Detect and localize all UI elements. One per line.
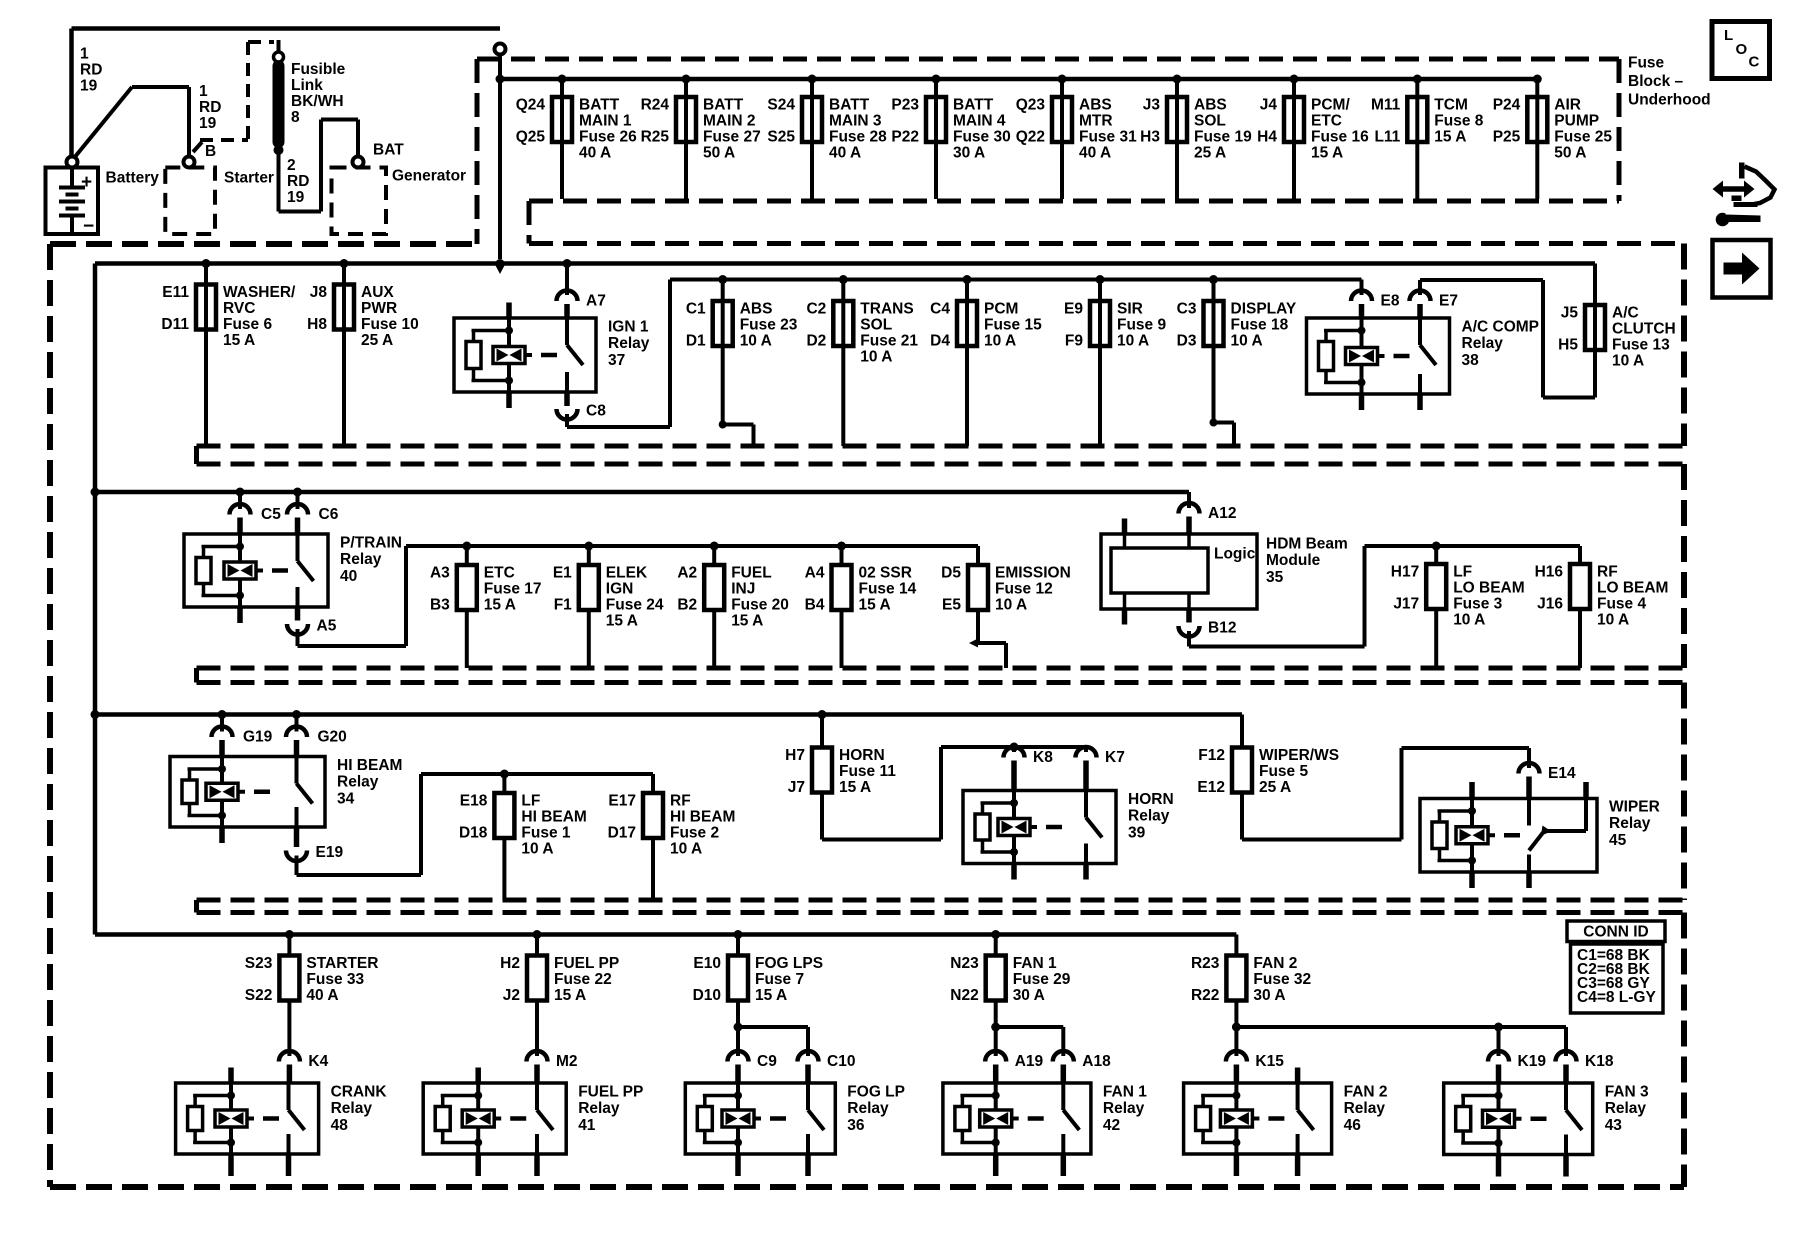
svg-text:H7: H7 xyxy=(785,747,805,764)
svg-text:36: 36 xyxy=(847,1117,865,1134)
svg-text:Fuse 5: Fuse 5 xyxy=(1259,763,1308,780)
svg-text:B4: B4 xyxy=(805,596,825,613)
svg-text:Fuse 17: Fuse 17 xyxy=(484,580,542,597)
svg-text:D11: D11 xyxy=(161,316,189,333)
svg-text:Fuse 1: Fuse 1 xyxy=(521,824,570,841)
svg-text:C5: C5 xyxy=(261,506,281,523)
svg-text:C1: C1 xyxy=(686,300,706,317)
svg-text:40: 40 xyxy=(340,568,357,585)
svg-text:E14: E14 xyxy=(1548,765,1576,782)
svg-text:Fuse 33: Fuse 33 xyxy=(306,971,364,988)
svg-text:30 A: 30 A xyxy=(953,144,985,161)
svg-text:15 A: 15 A xyxy=(1311,144,1343,161)
svg-text:A19: A19 xyxy=(1015,1053,1044,1070)
svg-text:A/C COMP: A/C COMP xyxy=(1462,318,1540,335)
svg-text:50 A: 50 A xyxy=(1554,144,1586,161)
svg-text:Fuse 26: Fuse 26 xyxy=(579,128,637,145)
svg-text:P22: P22 xyxy=(891,128,919,145)
svg-text:Fuse 7: Fuse 7 xyxy=(755,971,804,988)
svg-text:FAN 3: FAN 3 xyxy=(1605,1083,1649,1100)
svg-text:10 A: 10 A xyxy=(740,332,772,349)
svg-text:K7: K7 xyxy=(1105,749,1125,766)
svg-text:P24: P24 xyxy=(1493,96,1521,113)
svg-text:S22: S22 xyxy=(245,987,273,1004)
svg-text:39: 39 xyxy=(1128,824,1146,841)
svg-text:C4=8 L-GY: C4=8 L-GY xyxy=(1577,989,1656,1006)
svg-text:O: O xyxy=(1736,41,1748,58)
svg-text:15 A: 15 A xyxy=(606,612,638,629)
svg-text:ELEK: ELEK xyxy=(606,564,648,581)
svg-text:E9: E9 xyxy=(1064,300,1083,317)
svg-text:K18: K18 xyxy=(1585,1053,1614,1070)
svg-text:37: 37 xyxy=(608,352,625,369)
svg-text:IGN: IGN xyxy=(606,580,634,597)
svg-text:D4: D4 xyxy=(930,332,950,349)
svg-text:ABS: ABS xyxy=(1194,96,1227,113)
svg-text:BATT: BATT xyxy=(953,96,994,113)
svg-text:HI BEAM: HI BEAM xyxy=(337,757,402,774)
svg-text:E8: E8 xyxy=(1381,292,1400,309)
svg-text:40 A: 40 A xyxy=(579,144,611,161)
svg-text:Relay: Relay xyxy=(608,335,650,352)
svg-text:42: 42 xyxy=(1103,1117,1120,1134)
svg-text:40 A: 40 A xyxy=(829,144,861,161)
svg-text:HORN: HORN xyxy=(1128,791,1174,808)
svg-text:N23: N23 xyxy=(950,955,979,972)
svg-text:L11: L11 xyxy=(1374,128,1400,145)
svg-text:H3: H3 xyxy=(1140,128,1160,145)
svg-text:LF: LF xyxy=(1453,563,1472,580)
svg-text:M11: M11 xyxy=(1371,96,1401,113)
svg-text:ETC: ETC xyxy=(484,564,515,581)
svg-text:Relay: Relay xyxy=(1128,808,1170,825)
svg-text:D3: D3 xyxy=(1177,332,1197,349)
svg-text:PCM: PCM xyxy=(984,300,1018,317)
svg-text:25 A: 25 A xyxy=(1259,779,1291,796)
svg-text:Fuse 13: Fuse 13 xyxy=(1612,336,1670,353)
svg-text:10 A: 10 A xyxy=(1597,611,1629,628)
svg-text:Fuse 20: Fuse 20 xyxy=(731,596,789,613)
svg-text:WIPER: WIPER xyxy=(1609,798,1660,815)
svg-text:D17: D17 xyxy=(608,824,636,841)
svg-text:MTR: MTR xyxy=(1079,112,1113,129)
svg-text:H8: H8 xyxy=(307,316,327,333)
svg-text:50 A: 50 A xyxy=(703,144,735,161)
svg-text:FOG LP: FOG LP xyxy=(847,1083,905,1100)
svg-text:C4: C4 xyxy=(930,300,950,317)
svg-text:−: − xyxy=(83,216,94,237)
svg-text:J8: J8 xyxy=(310,284,328,301)
svg-text:Fuse 27: Fuse 27 xyxy=(703,128,761,145)
svg-text:HDM Beam: HDM Beam xyxy=(1266,535,1348,552)
svg-text:1: 1 xyxy=(80,45,89,62)
svg-text:BK/WH: BK/WH xyxy=(291,93,344,110)
svg-text:D5: D5 xyxy=(941,564,961,581)
svg-text:J17: J17 xyxy=(1393,595,1419,612)
svg-text:Q25: Q25 xyxy=(516,128,546,145)
svg-text:Relay: Relay xyxy=(1609,815,1651,832)
svg-text:15 A: 15 A xyxy=(554,987,586,1004)
svg-text:ETC: ETC xyxy=(1311,112,1342,129)
svg-text:WASHER/: WASHER/ xyxy=(223,284,296,301)
svg-text:BATT: BATT xyxy=(579,96,620,113)
svg-text:CLUTCH: CLUTCH xyxy=(1612,320,1676,337)
svg-text:LO BEAM: LO BEAM xyxy=(1453,579,1524,596)
svg-text:MAIN 1: MAIN 1 xyxy=(579,112,632,129)
svg-text:P/TRAIN: P/TRAIN xyxy=(340,534,402,551)
svg-text:RVC: RVC xyxy=(223,300,255,317)
svg-text:Relay: Relay xyxy=(1103,1100,1145,1117)
svg-text:10 A: 10 A xyxy=(860,348,892,365)
svg-text:25 A: 25 A xyxy=(1194,144,1226,161)
svg-text:E18: E18 xyxy=(460,792,488,809)
svg-text:Fuse 29: Fuse 29 xyxy=(1013,971,1071,988)
svg-text:F1: F1 xyxy=(554,596,572,613)
svg-text:FUEL PP: FUEL PP xyxy=(578,1083,643,1100)
svg-text:M2: M2 xyxy=(556,1053,578,1070)
svg-text:A12: A12 xyxy=(1208,505,1236,522)
svg-text:Fuse 6: Fuse 6 xyxy=(223,316,272,333)
svg-text:Link: Link xyxy=(291,77,323,94)
svg-text:H17: H17 xyxy=(1391,563,1419,580)
svg-text:J5: J5 xyxy=(1561,304,1579,321)
svg-text:Logic: Logic xyxy=(1214,545,1256,562)
svg-text:34: 34 xyxy=(337,790,355,807)
svg-text:J16: J16 xyxy=(1537,595,1563,612)
svg-text:E11: E11 xyxy=(162,284,189,301)
svg-text:BAT: BAT xyxy=(373,141,404,158)
svg-text:CONN ID: CONN ID xyxy=(1583,923,1648,940)
svg-text:RD: RD xyxy=(199,99,221,116)
svg-text:E17: E17 xyxy=(608,792,636,809)
svg-text:C9: C9 xyxy=(757,1053,777,1070)
svg-text:19: 19 xyxy=(199,115,217,132)
svg-text:35: 35 xyxy=(1266,569,1284,586)
svg-text:40 A: 40 A xyxy=(1079,144,1111,161)
svg-text:A3: A3 xyxy=(430,564,450,581)
svg-text:Fuse 30: Fuse 30 xyxy=(953,128,1011,145)
svg-text:C10: C10 xyxy=(827,1053,855,1070)
svg-text:BATT: BATT xyxy=(829,96,870,113)
svg-text:Fuse 8: Fuse 8 xyxy=(1434,112,1483,129)
svg-text:HI BEAM: HI BEAM xyxy=(521,808,586,825)
svg-text:TRANS: TRANS xyxy=(860,300,913,317)
svg-text:BATT: BATT xyxy=(703,96,744,113)
svg-text:A5: A5 xyxy=(317,617,337,634)
svg-text:INJ: INJ xyxy=(731,580,755,597)
svg-text:DISPLAY: DISPLAY xyxy=(1231,300,1297,317)
svg-text:Relay: Relay xyxy=(1344,1100,1386,1117)
svg-text:C8: C8 xyxy=(586,402,606,419)
svg-text:S25: S25 xyxy=(767,128,795,145)
svg-text:E19: E19 xyxy=(316,844,344,861)
svg-text:Generator: Generator xyxy=(392,167,466,184)
svg-text:FOG LPS: FOG LPS xyxy=(755,955,823,972)
svg-text:Fuse 16: Fuse 16 xyxy=(1311,128,1369,145)
svg-text:Relay: Relay xyxy=(331,1100,373,1117)
svg-text:B12: B12 xyxy=(1208,619,1236,636)
svg-text:D2: D2 xyxy=(806,332,826,349)
svg-text:15 A: 15 A xyxy=(1434,128,1466,145)
svg-text:RF: RF xyxy=(670,792,691,809)
svg-text:Relay: Relay xyxy=(578,1100,620,1117)
svg-text:10 A: 10 A xyxy=(1453,611,1485,628)
svg-text:B3: B3 xyxy=(430,596,450,613)
svg-text:F9: F9 xyxy=(1065,332,1083,349)
svg-text:H2: H2 xyxy=(500,955,520,972)
svg-text:15 A: 15 A xyxy=(484,596,516,613)
svg-text:HORN: HORN xyxy=(839,747,885,764)
svg-text:1: 1 xyxy=(199,83,208,100)
svg-text:30 A: 30 A xyxy=(1253,987,1285,1004)
svg-text:Underhood: Underhood xyxy=(1628,92,1711,109)
svg-text:40 A: 40 A xyxy=(306,987,338,1004)
svg-text:C6: C6 xyxy=(319,506,339,523)
svg-text:Fuse 25: Fuse 25 xyxy=(1554,128,1612,145)
svg-text:CRANK: CRANK xyxy=(331,1083,388,1100)
svg-text:15 A: 15 A xyxy=(839,779,871,796)
svg-text:AUX: AUX xyxy=(361,284,394,301)
svg-text:FUEL: FUEL xyxy=(731,564,771,581)
svg-text:A18: A18 xyxy=(1082,1053,1111,1070)
svg-text:+: + xyxy=(81,172,92,193)
svg-text:Relay: Relay xyxy=(847,1100,889,1117)
svg-text:Relay: Relay xyxy=(340,551,382,568)
svg-text:Fuse 22: Fuse 22 xyxy=(554,971,612,988)
svg-text:Fuse 4: Fuse 4 xyxy=(1597,595,1646,612)
svg-text:RF: RF xyxy=(1597,563,1618,580)
svg-text:N22: N22 xyxy=(950,987,978,1004)
svg-text:C2: C2 xyxy=(806,300,826,317)
svg-text:PCM/: PCM/ xyxy=(1311,96,1350,113)
svg-text:19: 19 xyxy=(80,77,98,94)
svg-text:E5: E5 xyxy=(942,596,961,613)
svg-text:FAN 2: FAN 2 xyxy=(1344,1083,1388,1100)
svg-text:30 A: 30 A xyxy=(1013,987,1045,1004)
svg-text:Fuse 10: Fuse 10 xyxy=(361,316,419,333)
svg-text:10 A: 10 A xyxy=(995,596,1027,613)
svg-text:F12: F12 xyxy=(1198,747,1225,764)
svg-text:48: 48 xyxy=(331,1117,349,1134)
svg-text:Fuse 12: Fuse 12 xyxy=(995,580,1053,597)
svg-text:SOL: SOL xyxy=(1194,112,1226,129)
svg-text:A2: A2 xyxy=(677,564,697,581)
svg-text:Relay: Relay xyxy=(1462,335,1504,352)
svg-text:H4: H4 xyxy=(1257,128,1277,145)
svg-text:ABS: ABS xyxy=(740,300,773,317)
svg-text:15 A: 15 A xyxy=(223,332,255,349)
svg-text:STARTER: STARTER xyxy=(306,955,378,972)
svg-text:Fuse 3: Fuse 3 xyxy=(1453,595,1502,612)
svg-text:L: L xyxy=(1724,27,1733,44)
svg-text:15 A: 15 A xyxy=(731,612,763,629)
svg-text:Fuse 11: Fuse 11 xyxy=(839,763,896,780)
svg-text:IGN 1: IGN 1 xyxy=(608,318,649,335)
svg-text:Fuse 15: Fuse 15 xyxy=(984,316,1042,333)
svg-text:MAIN 4: MAIN 4 xyxy=(953,112,1006,129)
svg-text:H16: H16 xyxy=(1535,563,1564,580)
svg-text:Fuse 28: Fuse 28 xyxy=(829,128,887,145)
svg-text:J2: J2 xyxy=(503,987,520,1004)
svg-text:Battery: Battery xyxy=(106,169,160,186)
svg-text:15 A: 15 A xyxy=(859,596,891,613)
svg-text:Q23: Q23 xyxy=(1016,96,1046,113)
svg-text:G20: G20 xyxy=(318,728,347,745)
svg-text:C: C xyxy=(1749,53,1760,70)
svg-text:38: 38 xyxy=(1462,352,1480,369)
svg-text:HI BEAM: HI BEAM xyxy=(670,808,735,825)
svg-text:41: 41 xyxy=(578,1117,596,1134)
svg-text:Fuse 19: Fuse 19 xyxy=(1194,128,1252,145)
svg-text:LO BEAM: LO BEAM xyxy=(1597,579,1668,596)
svg-text:K15: K15 xyxy=(1255,1053,1284,1070)
svg-text:Module: Module xyxy=(1266,552,1321,569)
svg-text:PUMP: PUMP xyxy=(1554,112,1599,129)
svg-text:J7: J7 xyxy=(788,779,805,796)
svg-text:H5: H5 xyxy=(1558,336,1578,353)
svg-text:K8: K8 xyxy=(1033,749,1053,766)
svg-text:LF: LF xyxy=(521,792,540,809)
svg-text:TCM: TCM xyxy=(1434,96,1468,113)
svg-text:Fuse 2: Fuse 2 xyxy=(670,824,719,841)
svg-text:10 A: 10 A xyxy=(984,332,1016,349)
svg-text:P25: P25 xyxy=(1493,128,1521,145)
svg-text:Fuse 24: Fuse 24 xyxy=(606,596,664,613)
svg-text:MAIN 2: MAIN 2 xyxy=(703,112,756,129)
svg-text:46: 46 xyxy=(1344,1117,1362,1134)
svg-text:8: 8 xyxy=(291,109,300,126)
svg-text:S23: S23 xyxy=(245,955,273,972)
svg-text:Fuse: Fuse xyxy=(1628,54,1665,71)
svg-text:10 A: 10 A xyxy=(1117,332,1149,349)
svg-text:25 A: 25 A xyxy=(361,332,393,349)
svg-text:D1: D1 xyxy=(686,332,706,349)
svg-text:J3: J3 xyxy=(1143,96,1161,113)
svg-text:Fuse 18: Fuse 18 xyxy=(1231,316,1289,333)
svg-text:Starter: Starter xyxy=(224,169,274,186)
svg-text:G19: G19 xyxy=(243,728,273,745)
svg-text:Fuse 31: Fuse 31 xyxy=(1079,128,1137,145)
svg-text:EMISSION: EMISSION xyxy=(995,564,1071,581)
svg-text:Fuse 14: Fuse 14 xyxy=(859,580,917,597)
svg-text:Relay: Relay xyxy=(337,774,379,791)
svg-text:43: 43 xyxy=(1605,1117,1623,1134)
svg-text:PWR: PWR xyxy=(361,300,397,317)
svg-text:Fuse 9: Fuse 9 xyxy=(1117,316,1166,333)
svg-text:Q22: Q22 xyxy=(1016,128,1045,145)
svg-text:ABS: ABS xyxy=(1079,96,1112,113)
svg-text:Fuse 23: Fuse 23 xyxy=(740,316,798,333)
svg-text:P23: P23 xyxy=(891,96,919,113)
svg-text:K4: K4 xyxy=(308,1053,328,1070)
svg-text:10 A: 10 A xyxy=(670,840,702,857)
svg-text:MAIN 3: MAIN 3 xyxy=(829,112,882,129)
svg-text:10 A: 10 A xyxy=(1231,332,1263,349)
svg-text:Block –: Block – xyxy=(1628,73,1684,90)
svg-text:02 SSR: 02 SSR xyxy=(859,564,912,581)
svg-text:S24: S24 xyxy=(767,96,795,113)
svg-text:Fuse 21: Fuse 21 xyxy=(860,332,918,349)
svg-text:Fusible: Fusible xyxy=(291,61,346,78)
svg-text:FAN 1: FAN 1 xyxy=(1103,1083,1147,1100)
svg-text:R22: R22 xyxy=(1191,987,1219,1004)
svg-text:SOL: SOL xyxy=(860,316,892,333)
svg-text:19: 19 xyxy=(287,189,305,206)
svg-text:E10: E10 xyxy=(693,955,721,972)
svg-text:Q24: Q24 xyxy=(516,96,546,113)
svg-text:RD: RD xyxy=(80,61,102,78)
svg-text:FAN 2: FAN 2 xyxy=(1253,955,1297,972)
svg-text:D10: D10 xyxy=(693,987,721,1004)
svg-text:A7: A7 xyxy=(586,292,606,309)
svg-text:FAN 1: FAN 1 xyxy=(1013,955,1057,972)
svg-text:RD: RD xyxy=(287,173,309,190)
svg-text:D18: D18 xyxy=(459,824,488,841)
svg-text:R24: R24 xyxy=(641,96,670,113)
svg-text:R25: R25 xyxy=(641,128,670,145)
svg-text:15 A: 15 A xyxy=(755,987,787,1004)
svg-text:10 A: 10 A xyxy=(521,840,553,857)
svg-text:K19: K19 xyxy=(1518,1053,1547,1070)
svg-text:45: 45 xyxy=(1609,832,1627,849)
svg-text:Relay: Relay xyxy=(1605,1100,1647,1117)
svg-text:Fuse 32: Fuse 32 xyxy=(1253,971,1311,988)
svg-text:B2: B2 xyxy=(677,596,697,613)
svg-text:E7: E7 xyxy=(1439,292,1458,309)
svg-text:FUEL PP: FUEL PP xyxy=(554,955,619,972)
svg-text:AIR: AIR xyxy=(1554,96,1581,113)
svg-text:C3: C3 xyxy=(1177,300,1197,317)
svg-text:R23: R23 xyxy=(1191,955,1220,972)
svg-text:B: B xyxy=(205,143,216,160)
svg-text:WIPER/WS: WIPER/WS xyxy=(1259,747,1339,764)
svg-text:E1: E1 xyxy=(553,564,572,581)
svg-text:2: 2 xyxy=(287,157,296,174)
svg-text:10 A: 10 A xyxy=(1612,352,1644,369)
svg-text:J4: J4 xyxy=(1260,96,1278,113)
svg-text:A4: A4 xyxy=(805,564,825,581)
svg-text:SIR: SIR xyxy=(1117,300,1143,317)
svg-text:A/C: A/C xyxy=(1612,304,1639,321)
svg-text:E12: E12 xyxy=(1197,779,1225,796)
